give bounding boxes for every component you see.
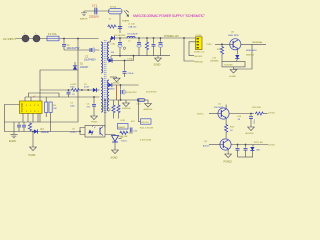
svg-text:R10 10K: R10 10K [119,136,128,138]
capacitor C8 output [111,38,126,56]
junction ground rail x120 [119,55,121,57]
svg-text:220uF: 220uF [128,73,135,75]
capacitor C6B [22,122,26,132]
svg-text:1N4148: 1N4148 [41,131,50,134]
junction Q2 a [237,144,239,146]
svg-text:100n: 100n [70,87,76,89]
svg-text:SB29LX: SB29LX [246,55,255,57]
wire opto left pins [80,128,85,135]
svg-text:100n: 100n [254,120,256,124]
diode D8 [235,49,239,62]
diode D2 [84,84,97,92]
svg-text:LED: LED [256,150,261,152]
svg-text:CON1: CON1 [196,35,203,37]
wire clamp drop [119,14,121,33]
wire Y-cap run [84,10,110,12]
svg-text:6.3V/0.15A: 6.3V/0.15A [140,138,151,141]
wire to transformer primary top [64,49,100,51]
svg-text:12VDC: 12VDC [197,114,204,116]
transformer T1 aux winding [101,78,103,112]
capacitor C4 [67,90,76,97]
diode D6 second output [108,83,115,91]
capacitor C10A [123,61,135,78]
transistor Q2 [203,139,231,150]
IC U1 switcher [20,101,43,113]
fuse F2 clamp pill [109,5,123,14]
capacitor C15 [236,145,240,158]
wire secondary top rail [111,37,196,39]
transformer T1 secondary winding bottom [107,80,109,111]
svg-text:EGND: EGND [9,140,16,143]
junction rail x184 [183,37,185,39]
svg-text:TLV62S6: TLV62S6 [224,65,234,67]
svg-text:12VDC: 12VDC [268,144,275,146]
wire AC mains rail [16,38,99,40]
wire opto right top pin [104,127,106,129]
junction second output [120,84,122,86]
capacitor C1 [62,39,80,51]
junction rail x78 [77,38,79,40]
transistor Q1 [214,104,229,120]
ferrite bead FB2 on return [137,99,145,106]
junction bias b [87,89,89,91]
svg-text:TL431: TL431 [121,140,128,142]
wire secondary winding lower pin [109,56,111,62]
svg-text:AGND: AGND [111,156,118,159]
resistor R6 [145,38,148,56]
svg-text:TNY266: TNY266 [20,102,24,112]
transformer T1 secondary winding top [107,42,109,61]
labels C13 LM [210,57,219,62]
junction rail dots [119,37,161,39]
svg-text:1N4007: 1N4007 [80,66,89,69]
svg-text:CY1: CY1 [92,4,98,8]
wire to pass transistor [215,43,230,45]
resistor R1B snubber [108,19,117,29]
diode D1 [73,62,89,70]
wire bias to winding [97,89,100,91]
svg-text:MOLEX: MOLEX [195,56,203,58]
svg-text:PGND: PGND [91,121,98,123]
wire IC bottom bus [4,121,40,123]
wire connector net PM [184,38,194,61]
spark gap arrow [124,10,129,16]
capacitor C5 [87,97,97,116]
ground AGND TL431 [111,142,119,159]
svg-text:R12 4.7K/1W: R12 4.7K/1W [140,128,154,130]
transformer T1 primary winding [101,42,103,73]
wire led bottom [238,156,254,158]
junction bias a [81,89,83,91]
wire EN bridge [29,93,60,97]
svg-text:AC INPUT: AC INPUT [3,37,16,41]
svg-text:HGND: HGND [230,76,237,78]
wire emitter out [241,43,266,45]
svg-text:SGND: SGND [154,63,161,66]
svg-text:F1 T2A: F1 T2A [48,32,57,36]
capacitor C11 output [158,38,162,56]
svg-text:C2A: C2A [111,42,116,45]
svg-text:C9 1000uF: C9 1000uF [127,33,138,35]
wire aux rail y97 [25,96,100,98]
wire IC bottom pins [23,113,38,122]
capacitor C10 [152,38,156,56]
junction Q2 b [245,144,247,146]
svg-text:AGND00: AGND00 [144,108,154,111]
connector CON1 [194,35,205,53]
wire Q2 out [231,144,268,146]
capacitor C9 [137,38,141,56]
svg-text:12VDC: 12VDC [268,113,275,115]
ground PGND2 [224,149,233,164]
svg-text:C10A: C10A [127,58,133,61]
diode LED1 [250,145,260,158]
svg-text:SPARK: SPARK [122,20,130,23]
wire connector pin2 L [189,42,196,56]
svg-text:100n: 100n [70,105,76,107]
svg-text:PGND: PGND [29,154,36,157]
resistor R13 box [131,119,151,124]
resistor R5 [28,123,31,132]
ground HSGND [230,67,237,78]
ground SGND [154,56,162,67]
svg-text:SGND00: SGND00 [122,108,132,110]
wire R16 out [264,113,268,115]
svg-text:2SC5027: 2SC5027 [214,107,224,109]
svg-text:D5 SB3100: D5 SB3100 [114,35,126,37]
resistor R2 [70,84,80,92]
junction low rail [104,99,139,101]
svg-text:R13 1K: R13 1K [142,122,150,124]
wire second output [113,84,139,86]
ground SGND stub top [110,77,120,85]
junction pass base [221,43,223,45]
ground EGND [9,132,18,143]
regulator box TL431B [222,62,245,67]
svg-text:EARTH: EARTH [80,17,88,20]
wire drain drop x78 [77,39,79,71]
wire divider drop [139,100,141,122]
svg-text:A1015: A1015 [203,144,210,147]
transistor U5 [228,32,241,50]
wire sense drop [104,100,106,128]
shunt regulator U3 TL431 [112,136,128,143]
wire feedback loop rectangle [40,70,78,122]
wire red net [116,85,118,100]
svg-text:R16 560: R16 560 [253,107,262,109]
junction bottom-left [32,131,34,133]
ground earth top [80,11,88,20]
thermistor RT2 [33,33,40,42]
svg-text:CY05: CY05 [206,44,212,46]
capacitor C2 on primary wire [84,48,96,62]
capacitor C6 [17,122,21,132]
resistor R10 box [118,124,129,139]
svg-text:470uF/25V: 470uF/25V [146,92,157,94]
node C14 label [237,116,242,121]
ground AGND2 [246,127,255,135]
junction Q1 out [250,113,252,115]
capacitor C7 [121,85,138,100]
svg-text:8.2uH: 8.2uH [103,105,105,111]
svg-text:ACGND: ACGND [246,132,254,135]
wire left stub [13,122,15,132]
svg-text:10uF/400V: 10uF/400V [84,59,96,62]
resistor R3 [45,97,48,117]
svg-text:POWER+12V: POWER+12V [164,35,179,38]
resistor R6 divider [110,100,116,119]
svg-text:DCMC 3-4: DCMC 3-4 [194,51,205,53]
ground SGND2 [122,100,132,110]
diode D5 [111,35,126,40]
svg-text:C7 470uF/25V: C7 470uF/25V [123,92,138,94]
svg-text:LM/SMD: LM/SMD [210,61,219,63]
inductor L2 [127,33,138,42]
svg-text:SB360: SB360 [108,89,115,91]
wire terminal drop [234,44,253,69]
wire secondary ground rail [111,55,170,57]
wire Q1 out [229,113,254,115]
svg-text:TERMINAL: TERMINAL [252,41,264,44]
svg-text:L1 100: L1 100 [128,23,135,25]
resistor R11 [120,131,134,135]
junction C5 top [93,96,95,98]
wire bottom-left bus [4,131,80,133]
svg-text:MJE13003: MJE13003 [246,50,257,52]
svg-text:R17 LED: R17 LED [254,142,263,144]
svg-text:8.2K: 8.2K [121,120,126,122]
junction opto left [79,131,81,133]
wire Q1 base [209,113,218,115]
resistor R16 [253,107,264,115]
ground SGND3 [144,100,154,111]
wire IC top pins [25,97,31,101]
svg-text:SGND: SGND [113,83,120,85]
wire bias mid [80,89,93,91]
capacitor C15A [249,114,256,128]
capacitor C16 [244,145,248,158]
junction C4 top [68,89,70,91]
wire opto right bottom pin [105,135,115,136]
wire secondary rail stub [109,41,111,43]
svg-text:MW3 230-305VAC POWER SUPPLY "S: MW3 230-305VAC POWER SUPPLY "SCHEMATIC" [133,14,206,18]
ground PGND primary caps [91,116,98,123]
optocoupler U2 [70,126,105,138]
resistor R4 [49,102,57,132]
node C3 label [70,103,76,108]
svg-text:4148: 4148 [84,87,90,89]
svg-text:10K: 10K [53,108,57,110]
thermistor RT1 [22,33,29,42]
wire secondary low rail [108,99,146,101]
diode D4 [34,128,50,134]
resistor R7 divider [117,100,126,122]
capacitor C12 divider [130,128,138,133]
svg-text:222/1KV: 222/1KV [89,15,99,19]
svg-text:PC817: PC817 [70,132,77,134]
wire bias chain [40,89,71,91]
resistor R12 [217,44,224,61]
transformer T1 core [104,40,106,114]
svg-text:D882 NPN: D882 NPN [228,35,239,37]
svg-text:PM6562L: PM6562L [194,62,204,64]
capacitor C3A [118,23,137,28]
junction rail x64 [63,38,65,40]
wire Q1 collector stub [225,105,227,110]
svg-text:F2 1A: F2 1A [110,5,116,8]
resistor R15 [225,118,235,138]
diode D6B mid output [109,55,135,63]
fuse F1 [47,32,59,41]
ground PGND bottom [29,132,37,157]
svg-text:KIA431: KIA431 [118,126,126,129]
svg-text:C3A 222: C3A 222 [128,26,137,29]
capacitor CY1 [89,4,99,19]
svg-text:PGND2: PGND2 [224,160,233,163]
